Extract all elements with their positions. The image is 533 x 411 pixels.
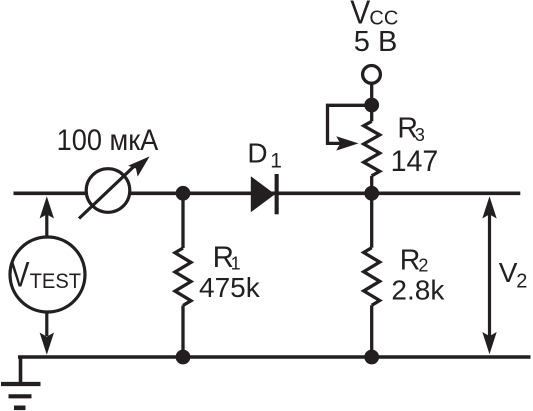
ground (1, 357, 41, 408)
node dot: VCC / R3 top / wiper (364, 98, 379, 113)
label R2 (400, 244, 429, 276)
VTEST upper arrow (40, 196, 54, 236)
resistor R3 (rheostat) (364, 105, 380, 193)
label R1 (213, 241, 241, 274)
diode D1 (251, 174, 279, 214)
R3 wiper arrow loop (328, 105, 372, 150)
node dot: bottom rail / R1 (176, 350, 191, 365)
label D1 (247, 137, 281, 172)
label R3 (397, 112, 425, 145)
svg-text:2: 2 (418, 256, 428, 276)
current source 100 uA (79, 151, 154, 218)
label V2 (499, 257, 528, 292)
resistor R2 (364, 193, 380, 357)
svg-text:475k: 475k (199, 272, 261, 303)
wire: VCC terminal to node (370, 83, 373, 105)
node dot: top rail / R2 / R3 (364, 186, 379, 201)
label VCC (350, 0, 398, 31)
svg-text:R: R (400, 244, 421, 276)
VCC terminal (363, 66, 381, 84)
node dot: top rail / R1 (176, 186, 191, 201)
svg-text:V: V (499, 257, 518, 288)
V2 measurement arrow (482, 196, 496, 354)
svg-text:147: 147 (391, 145, 439, 178)
source VTEST circle (10, 237, 85, 312)
svg-text:D: D (247, 137, 267, 168)
resistor R1 (175, 193, 191, 357)
VTEST lower arrow (40, 312, 54, 355)
wire: bottom ground rail (18, 355, 531, 359)
label VTEST (11, 256, 82, 295)
svg-text:100 мкА: 100 мкА (57, 124, 159, 157)
wire: top rail (14, 192, 521, 196)
svg-text:TEST: TEST (30, 269, 82, 293)
svg-text:1: 1 (231, 254, 241, 274)
svg-text:2.8k: 2.8k (391, 275, 445, 306)
svg-text:1: 1 (270, 150, 282, 173)
svg-text:V: V (11, 256, 31, 295)
svg-text:5 В: 5 В (354, 26, 398, 58)
node dot: bottom rail / R2 (364, 350, 379, 365)
svg-text:3: 3 (415, 125, 425, 145)
svg-text:2: 2 (516, 271, 527, 293)
